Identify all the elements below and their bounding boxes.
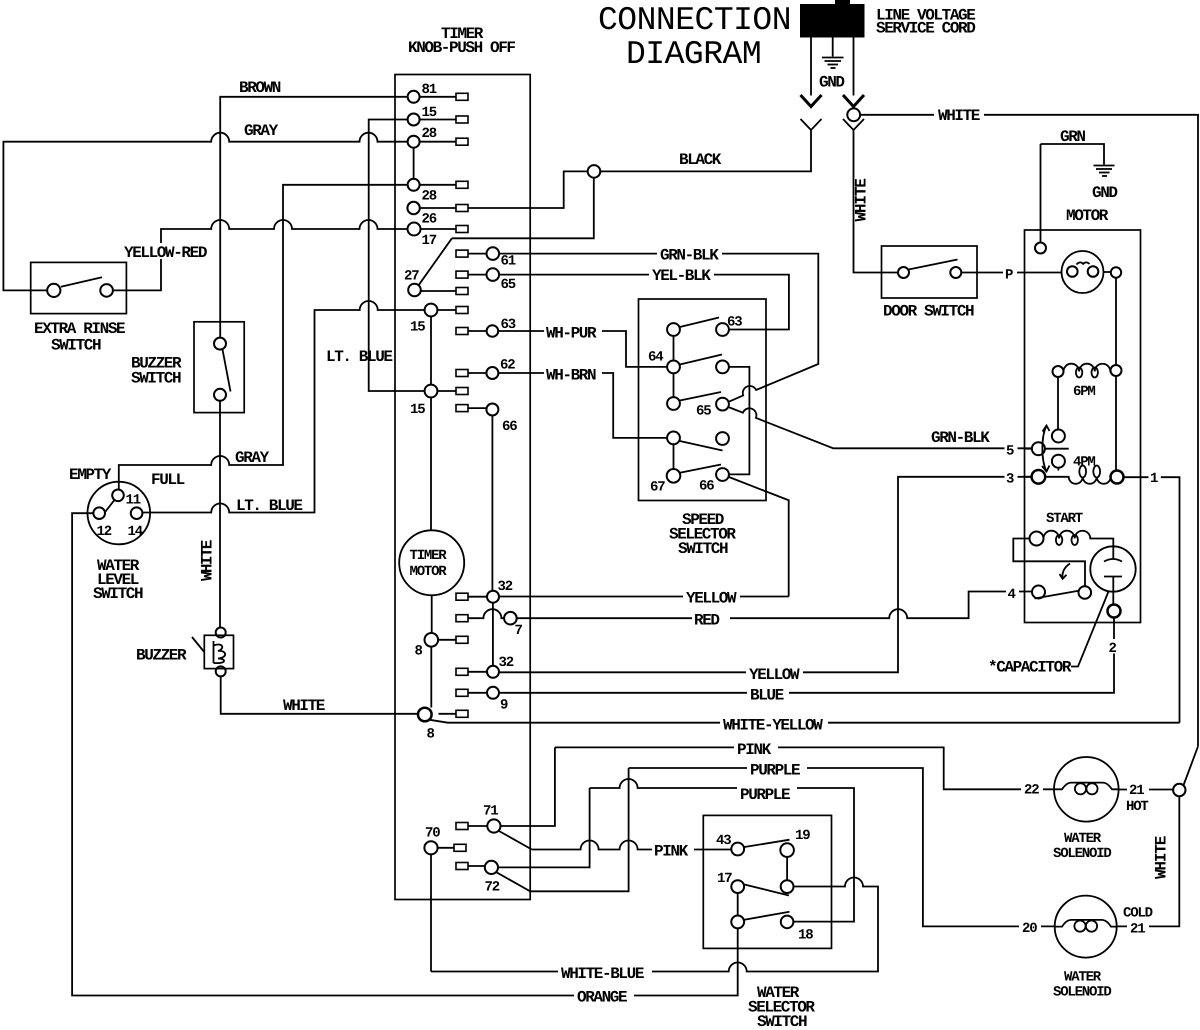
wire RED 7 to motor 4	[517, 592, 1032, 619]
svg-text:5: 5	[1006, 444, 1014, 460]
svg-text:FULL: FULL	[151, 471, 185, 489]
wire tab to 66	[468, 407, 486, 409]
terminal 17	[408, 223, 421, 236]
terminal 15	[408, 114, 420, 126]
wire motor box edge to 3	[1025, 476, 1032, 478]
connector chevron L1	[801, 119, 822, 130]
terminal 72	[485, 861, 498, 874]
timer row 28-2	[420, 184, 456, 186]
svg-text:27: 27	[404, 269, 419, 285]
terminal 15-3	[425, 385, 438, 398]
label YELLOW2	[746, 666, 803, 685]
wire PINK lower to water selector 43	[532, 841, 732, 850]
timer row 62 tab	[456, 370, 468, 377]
svg-text:28: 28	[422, 189, 437, 205]
water selector box	[703, 815, 831, 948]
svg-text:DOOR SWITCH: DOOR SWITCH	[883, 303, 974, 321]
svg-text:GND: GND	[1092, 184, 1117, 202]
wire WHITE vertical to door switch	[854, 130, 899, 273]
water selector blade 43-19	[744, 840, 789, 847]
4PM terminal R	[1111, 471, 1124, 484]
label PINK lower	[652, 842, 694, 861]
timer motor feed wire	[430, 397, 433, 633]
blade 63 row	[680, 318, 719, 328]
terminal 8-2	[418, 708, 432, 722]
label WHITE-YELLOW	[720, 716, 828, 735]
speed selector 63L-64L-65L link	[673, 336, 675, 397]
speed selector terminal 65L	[667, 397, 680, 410]
wire 72 to PURPLE-2 riser	[498, 788, 590, 867]
terminal 32-1	[487, 591, 499, 603]
wire YELLOW 32-1 to 66R riser	[499, 596, 789, 598]
motor terminal 5	[1032, 442, 1045, 455]
extra rinse terminal L	[47, 284, 60, 297]
svg-text:64: 64	[648, 350, 663, 366]
svg-text:YELLOW: YELLOW	[749, 666, 800, 684]
svg-text:SWITCH: SWITCH	[93, 585, 143, 603]
wire tab to 62	[468, 372, 487, 374]
svg-text:SOLENOID: SOLENOID	[1053, 846, 1111, 862]
svg-text:GRAY: GRAY	[244, 122, 279, 140]
svg-text:65: 65	[696, 404, 711, 420]
label 21 cold	[1127, 919, 1149, 938]
label 3	[1005, 470, 1018, 488]
capacitor pointer line	[1071, 592, 1109, 667]
cold solenoid coil	[1055, 920, 1117, 932]
wire 27 to BLACK junction	[452, 178, 594, 238]
wire WHITE top	[860, 115, 1198, 747]
speed selector terminal 64R	[716, 361, 729, 374]
label PINK upper	[734, 740, 778, 759]
svg-text:MOTOR: MOTOR	[1066, 207, 1109, 225]
label WHITE right vertical	[1153, 836, 1174, 881]
terminal 71	[487, 819, 500, 832]
wire BLUE 9 to capacitor	[499, 618, 1114, 693]
svg-text:70: 70	[425, 826, 440, 842]
svg-text:P: P	[1005, 268, 1013, 284]
speed selector box	[639, 299, 767, 501]
label TIMER KNOB-PUSH OFF	[408, 25, 515, 57]
svg-text:66: 66	[502, 419, 517, 435]
6PM coil row	[1064, 364, 1111, 372]
timer row 26	[420, 207, 456, 209]
label YELLOW	[683, 589, 740, 608]
capacitor circle	[1090, 546, 1135, 591]
arrowhead L1	[801, 95, 822, 107]
timer row 28	[420, 141, 456, 143]
water level terminal 12	[93, 507, 105, 519]
label 21 hot	[1127, 781, 1149, 800]
water selector 17-BL link	[737, 893, 739, 916]
label TIMER MOTOR	[410, 548, 448, 580]
wire GRAY 28-2 to water level 11	[119, 185, 408, 490]
svg-text:TIMER: TIMER	[410, 548, 448, 564]
motor main circle	[1062, 251, 1104, 293]
svg-text:SWITCH: SWITCH	[678, 540, 728, 558]
label COLD	[1121, 904, 1159, 922]
wire motor right vertical	[1115, 278, 1117, 471]
speed selector terminal 64L	[667, 361, 680, 374]
timer row 15-2	[437, 309, 456, 311]
capacitor plates	[1104, 559, 1122, 577]
tab 32-1	[456, 593, 468, 600]
wire GRAY 28 to extra rinse	[3, 133, 407, 291]
water selector terminal MR	[781, 880, 794, 893]
label YELLOW-RED	[123, 243, 213, 262]
wire tab to 63	[468, 330, 487, 332]
wire PURPLE-2 to water selector 18	[590, 779, 854, 922]
svg-text:WATER: WATER	[1064, 831, 1102, 847]
timer row 8-2	[439, 713, 457, 715]
wire YEL-BLK 65 to speed selector 63R	[499, 275, 789, 330]
wire GRN bracket	[1041, 144, 1105, 243]
water selector terminal 19	[780, 843, 794, 857]
label PURPLE-2	[737, 785, 797, 804]
tab 8-2	[456, 710, 468, 717]
terminal 32-2	[487, 666, 499, 678]
svg-text:3: 3	[1006, 472, 1014, 488]
START coil row	[1044, 531, 1114, 547]
svg-text:PINK: PINK	[654, 843, 689, 861]
wire 71 to PINK riser	[501, 747, 555, 826]
wire 71 diagonal to PINK lower	[498, 831, 532, 850]
timer row 8-1	[438, 639, 456, 641]
speed selector terminal 63R	[716, 323, 729, 336]
timer row 17	[421, 228, 457, 230]
terminal 62	[486, 367, 498, 379]
wire BROWN 81 to buzzer switch	[220, 97, 407, 338]
node on WHITE at plug L2	[847, 108, 860, 121]
label WHITE left vertical	[199, 540, 219, 583]
tab 9	[456, 689, 468, 696]
wire motor 1 riser	[1124, 477, 1180, 723]
plug line wire L1	[810, 38, 812, 96]
svg-text:32: 32	[499, 655, 514, 671]
4PM coil row	[1045, 477, 1111, 484]
terminal 15-2	[425, 304, 438, 317]
svg-text:28: 28	[422, 126, 437, 142]
tab 81	[456, 93, 468, 100]
terminal 81	[408, 91, 420, 103]
wire door switch to motor	[961, 272, 1061, 274]
wire ORANGE 12 to water selector 17	[72, 513, 738, 995]
svg-text:67: 67	[650, 480, 665, 496]
terminal 26	[407, 202, 419, 214]
wire contact lower to 3 line	[1057, 468, 1059, 471]
wire 6PM-L down to contact	[1057, 377, 1059, 430]
label WATER SELECTOR SWITCH	[748, 984, 815, 1030]
wire LT BLUE 14 to 15-2	[142, 301, 424, 512]
wire white diagonal into junction	[1184, 746, 1198, 785]
door switch box	[882, 246, 978, 298]
svg-text:26: 26	[422, 212, 437, 228]
terminal 28-2	[408, 179, 420, 191]
svg-text:PURPLE: PURPLE	[740, 786, 790, 804]
capacitor internal wires	[1112, 546, 1114, 604]
svg-text:15: 15	[422, 105, 437, 121]
svg-text:BLACK: BLACK	[679, 151, 722, 169]
svg-text:21: 21	[1129, 783, 1144, 799]
svg-text:6PM: 6PM	[1073, 384, 1095, 400]
speed selector terminal 65R	[716, 398, 729, 411]
motor brush marks	[1077, 262, 1090, 264]
label BLUE	[747, 686, 789, 705]
svg-text:11: 11	[126, 493, 141, 509]
6PM terminal L	[1053, 366, 1064, 377]
terminal 66 timer	[486, 404, 498, 416]
blade 64 row	[680, 355, 722, 365]
wire GRN-BLK 61 to speed selector 65R	[499, 254, 818, 402]
wire START branch to contact	[1013, 539, 1085, 587]
terminal 28	[408, 136, 420, 148]
svg-text:21: 21	[1130, 922, 1145, 938]
timer row 63 tab	[456, 328, 468, 335]
label WHITE top	[934, 107, 984, 125]
svg-text:GRN-BLK: GRN-BLK	[660, 247, 719, 265]
wire junction down to cold solenoid	[1117, 796, 1180, 926]
junction node on BLACK	[588, 165, 601, 178]
ground symbol at plug	[822, 58, 844, 69]
wire WHITE buzzer to 8-2	[221, 676, 418, 713]
terminal 9	[487, 687, 499, 699]
cold solenoid circle	[1055, 896, 1117, 958]
door switch blade	[909, 260, 958, 270]
svg-text:WH-BRN: WH-BRN	[546, 367, 596, 385]
svg-text:GRAY: GRAY	[235, 449, 270, 467]
label WATER SOLENOID hot	[1053, 831, 1111, 862]
tab 26	[456, 205, 468, 212]
terminal 7	[504, 612, 517, 625]
wire 5 line	[1025, 448, 1069, 450]
extra rinse box	[31, 262, 127, 313]
4PM loop marks	[1079, 466, 1086, 478]
wire WH-PUR 63 to speed selector 64L	[498, 331, 667, 367]
svg-text:43: 43	[716, 833, 731, 849]
svg-text:9: 9	[500, 698, 508, 714]
timer row 66 tab	[456, 405, 468, 412]
terminal 65	[487, 268, 500, 281]
svg-text:SWITCH: SWITCH	[131, 370, 181, 388]
svg-text:66: 66	[699, 479, 714, 495]
wire BLACK from junction to plug L1	[601, 130, 812, 171]
buzzer switch terminal bottom	[214, 389, 226, 401]
arrowhead L2	[843, 95, 864, 107]
blade row4	[680, 441, 723, 451]
svg-text:GND: GND	[819, 74, 844, 92]
svg-text:HOT: HOT	[1126, 799, 1148, 815]
svg-text:START: START	[1046, 511, 1083, 527]
water level terminal 11	[112, 490, 124, 502]
timer row 15-3	[437, 390, 456, 392]
label ORANGE	[574, 988, 634, 1007]
svg-text:SOLENOID: SOLENOID	[1053, 985, 1111, 1001]
svg-text:12: 12	[97, 524, 112, 540]
wire 72 diagonal to PURPLE-1 riser	[496, 768, 628, 891]
water level blade 12-11	[100, 496, 117, 518]
svg-text:MOTOR: MOTOR	[410, 564, 448, 580]
water selector 19-MR link	[786, 857, 788, 880]
tab 15-2	[456, 307, 468, 314]
wire 27 diagonal	[419, 238, 452, 285]
tab 15	[456, 116, 468, 123]
terminal 8-1	[425, 633, 439, 647]
label WATER LEVEL SWITCH	[93, 557, 143, 603]
tab 71	[456, 823, 468, 830]
svg-text:WHITE-YELLOW: WHITE-YELLOW	[723, 717, 823, 735]
water selector blade BL-18	[744, 912, 789, 920]
svg-text:YELLOW-RED: YELLOW-RED	[124, 244, 207, 262]
timer row 81	[420, 96, 456, 98]
svg-text:8: 8	[427, 727, 435, 743]
svg-text:22: 22	[1024, 783, 1039, 799]
svg-text:WH-PUR: WH-PUR	[546, 325, 597, 343]
START terminal L	[1030, 532, 1044, 546]
extra rinse blade	[61, 277, 102, 287]
svg-text:SERVICE CORD: SERVICE CORD	[876, 20, 975, 38]
start contact circle	[1079, 586, 1092, 599]
wire 8-1 to 8-2	[430, 647, 432, 708]
svg-text:15: 15	[410, 320, 425, 336]
water selector blade 17-MR	[744, 885, 789, 896]
wire GRN-BLK2 65R to motor 5	[728, 407, 1032, 448]
svg-text:RED: RED	[694, 612, 719, 630]
motor terminal 4	[1032, 586, 1045, 599]
label WH-BRN	[544, 366, 602, 385]
svg-text:KNOB-PUSH OFF: KNOB-PUSH OFF	[408, 39, 515, 57]
svg-text:BROWN: BROWN	[239, 79, 281, 97]
6PM terminal R	[1111, 365, 1122, 376]
svg-text:DIAGRAM: DIAGRAM	[626, 36, 761, 73]
svg-text:WHITE: WHITE	[938, 107, 980, 125]
label WHITE-BLUE	[558, 964, 652, 983]
tab 32-2	[456, 668, 468, 675]
svg-text:14: 14	[128, 524, 143, 540]
svg-text:17: 17	[422, 233, 437, 249]
svg-text:*CAPACITOR: *CAPACITOR	[988, 659, 1072, 677]
tab 28	[456, 138, 468, 145]
hot solenoid coil	[1054, 783, 1119, 795]
svg-text:ORANGE: ORANGE	[577, 989, 627, 1007]
svg-text:WHITE: WHITE	[853, 179, 871, 222]
speed selector 64R-66R bracket	[729, 367, 750, 475]
svg-text:17: 17	[717, 871, 732, 887]
svg-text:WATER: WATER	[1064, 970, 1102, 986]
wire 15 link down to 15 third	[369, 120, 425, 392]
svg-text:32: 32	[498, 579, 513, 595]
wire PINK upper to hot solenoid	[555, 747, 1054, 789]
water selector terminal 43	[731, 843, 744, 856]
plug ground wire	[832, 38, 834, 57]
timer row 32-1	[468, 596, 487, 598]
label YEL-BLK	[649, 267, 714, 286]
motor box	[1025, 230, 1141, 623]
buzzer switch terminal top	[214, 338, 226, 350]
svg-text:SWITCH: SWITCH	[51, 337, 101, 355]
terminal 70	[424, 841, 437, 854]
svg-text:7: 7	[515, 623, 523, 639]
wire tab to 65	[468, 274, 487, 276]
door switch terminal R	[950, 267, 961, 278]
water selector terminal 18	[781, 916, 794, 929]
timer row 71	[468, 825, 487, 827]
svg-text:WHITE: WHITE	[283, 697, 325, 715]
label RED	[692, 611, 730, 630]
svg-text:SWITCH: SWITCH	[757, 1013, 807, 1030]
svg-text:71: 71	[483, 804, 498, 820]
hot solenoid circle	[1054, 757, 1119, 822]
centrifugal contact upper	[1052, 430, 1065, 443]
label WATER SOLENOID cold	[1053, 970, 1111, 1001]
tab 72	[456, 863, 468, 870]
tab 8-1	[456, 636, 468, 643]
svg-text:CONNECTION: CONNECTION	[598, 2, 791, 39]
svg-text:72: 72	[485, 880, 500, 896]
wire hot solenoid to junction	[1119, 789, 1174, 791]
wire 15-2 down link	[430, 316, 432, 384]
water level terminal 14	[131, 507, 143, 519]
svg-text:PINK: PINK	[737, 741, 772, 759]
timer row 72	[468, 865, 485, 867]
extra rinse terminal R	[100, 284, 113, 297]
tab 15-3	[456, 388, 468, 395]
white junction node right	[1173, 784, 1185, 796]
connector chevron L2	[843, 119, 864, 130]
door switch terminal L	[898, 267, 909, 278]
svg-text:WHITE: WHITE	[1153, 836, 1171, 879]
wire WH-BRN 62 to speed selector row4L	[498, 373, 667, 438]
wire PURPLE-1 to cold solenoid	[629, 768, 1055, 926]
timer row 61 tab	[456, 250, 468, 257]
timer row 32-2	[468, 671, 487, 673]
svg-text:63: 63	[727, 315, 742, 331]
label GRN-BLK	[657, 246, 722, 265]
buzzer switch box	[194, 322, 244, 413]
blade 65 row	[680, 392, 721, 401]
speed selector terminal row4L	[667, 432, 680, 445]
label SPEED SELECTOR SWITCH	[669, 511, 736, 558]
svg-text:GRN-BLK: GRN-BLK	[931, 429, 990, 447]
wire 66R to YELLOW	[729, 477, 789, 597]
centrifugal blade arrow	[1042, 426, 1050, 472]
wire 28 to 28 vertical	[413, 148, 415, 179]
timer row 27	[421, 290, 456, 292]
svg-text:61: 61	[501, 254, 516, 270]
svg-text:YEL-BLK: YEL-BLK	[652, 267, 711, 285]
wire buzzer switch to buzzer	[219, 401, 221, 628]
wire motor circle to right terminal	[1104, 271, 1111, 273]
timer box	[395, 75, 530, 900]
blade curved arrow	[1060, 564, 1071, 579]
ground symbol right	[1094, 166, 1115, 177]
terminal 27	[408, 284, 421, 297]
svg-text:19: 19	[795, 828, 810, 844]
label GRN-BLK2	[929, 429, 991, 447]
svg-text:LT. BLUE: LT. BLUE	[236, 497, 302, 515]
label WH-PUR	[544, 324, 602, 343]
motor inner contact L	[1067, 266, 1078, 277]
svg-text:2: 2	[1109, 641, 1117, 657]
centrifugal contact lower	[1052, 455, 1065, 468]
blade 4 to contact	[1035, 591, 1079, 599]
svg-text:BUZZER: BUZZER	[136, 647, 187, 665]
svg-text:1: 1	[1150, 471, 1158, 487]
wire 70 down to WHITE-BLUE	[430, 854, 432, 971]
speed selector terminal 67L	[667, 469, 681, 483]
label PURPLE-1	[747, 761, 807, 780]
line voltage service cord label	[876, 7, 975, 38]
timer row 7	[468, 609, 504, 618]
label BUZZER SWITCH	[131, 355, 182, 388]
